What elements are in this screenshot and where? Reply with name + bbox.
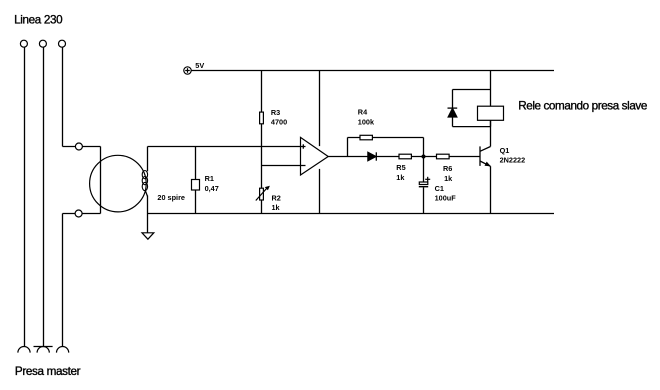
socket earth bar xyxy=(34,346,53,348)
svg-text:R4: R4 xyxy=(358,108,368,117)
svg-text:R1: R1 xyxy=(205,174,214,183)
node terminal L2 top xyxy=(39,40,46,47)
ground stub xyxy=(147,214,149,233)
5V rail xyxy=(191,70,554,72)
svg-text:1k: 1k xyxy=(272,203,281,212)
svg-text:1k: 1k xyxy=(444,174,453,183)
connector circle bottom xyxy=(75,210,82,217)
socket contact arc 3 xyxy=(57,347,69,353)
wire collector xyxy=(490,120,492,146)
svg-text:100k: 100k xyxy=(358,118,375,127)
ground symbol xyxy=(142,233,154,239)
svg-text:1k: 1k xyxy=(396,173,405,182)
svg-text:C1: C1 xyxy=(435,184,444,193)
resistor R5 xyxy=(399,154,411,159)
wire phase 3 upper xyxy=(62,47,64,146)
trimmer R2 arrow xyxy=(256,186,270,201)
resistor R3 xyxy=(260,112,264,124)
5V supply symbol xyxy=(184,67,191,74)
wire relay top xyxy=(490,71,492,107)
wire primary chord xyxy=(100,147,102,214)
flyback bottom wire xyxy=(453,126,491,128)
svg-text:Rele comando presa slave: Rele comando presa slave xyxy=(518,99,647,112)
wire relay bottom xyxy=(490,120,492,126)
wire phase 2 xyxy=(43,47,45,346)
svg-text:2N2222: 2N2222 xyxy=(500,156,526,165)
svg-text:Linea 230: Linea 230 xyxy=(14,14,63,27)
transformer secondary winding xyxy=(142,147,147,214)
wire phase 1 xyxy=(24,47,26,346)
feedback wire left xyxy=(347,138,349,157)
diode D1 xyxy=(368,152,376,160)
feedback wire right xyxy=(423,138,425,157)
transformer T1 core xyxy=(90,155,147,212)
op-amp power lower xyxy=(319,169,321,214)
svg-text:100uF: 100uF xyxy=(435,194,457,203)
socket contact arc 1 xyxy=(18,347,30,353)
svg-text:4700: 4700 xyxy=(271,118,287,127)
svg-text:R5: R5 xyxy=(396,163,405,172)
wire R1 xyxy=(195,147,197,214)
trimmer R2 body xyxy=(260,188,264,200)
svg-text:Presa master: Presa master xyxy=(15,365,81,378)
flyback left lower xyxy=(452,117,454,127)
feedback wire top xyxy=(348,137,424,139)
wire primary bottom xyxy=(63,213,101,215)
svg-text:R6: R6 xyxy=(443,164,452,173)
svg-text:5V: 5V xyxy=(195,61,204,70)
wire inverting input xyxy=(262,165,306,167)
svg-text:R2: R2 xyxy=(272,193,281,202)
resistor R6 xyxy=(437,154,450,159)
wire emitter xyxy=(490,166,492,213)
resistor R4 xyxy=(360,135,372,140)
transistor Q1 xyxy=(480,146,491,166)
flyback top wire xyxy=(453,89,491,91)
wire primary top xyxy=(63,146,101,148)
svg-text:0,47: 0,47 xyxy=(205,184,219,193)
op-amp U1 triangle xyxy=(301,137,329,175)
capacitor C1 xyxy=(419,177,430,187)
wire non-inverting input xyxy=(148,146,306,148)
svg-text:20 spire: 20 spire xyxy=(157,193,185,202)
connector circle top xyxy=(75,143,82,150)
wire R3-R2 chain xyxy=(261,71,263,214)
node terminal L3 top xyxy=(59,40,66,47)
svg-text:R3: R3 xyxy=(271,108,280,117)
plus input tick xyxy=(302,144,304,148)
node terminal L1 top xyxy=(20,40,27,47)
socket contact arc 2 xyxy=(37,347,49,353)
resistor R1 xyxy=(192,180,200,191)
wire C1 lower xyxy=(423,187,425,213)
wire C1 upper xyxy=(423,157,425,183)
relay coil K1 xyxy=(478,106,504,120)
flyback left upper xyxy=(452,90,454,109)
ground rail xyxy=(148,213,555,215)
wire op-amp output row xyxy=(328,156,480,158)
flyback diode D2 xyxy=(448,108,458,117)
wire phase 3 lower xyxy=(62,214,64,347)
junction node xyxy=(422,155,426,159)
svg-text:Q1: Q1 xyxy=(500,146,510,155)
op-amp power upper xyxy=(319,71,321,147)
